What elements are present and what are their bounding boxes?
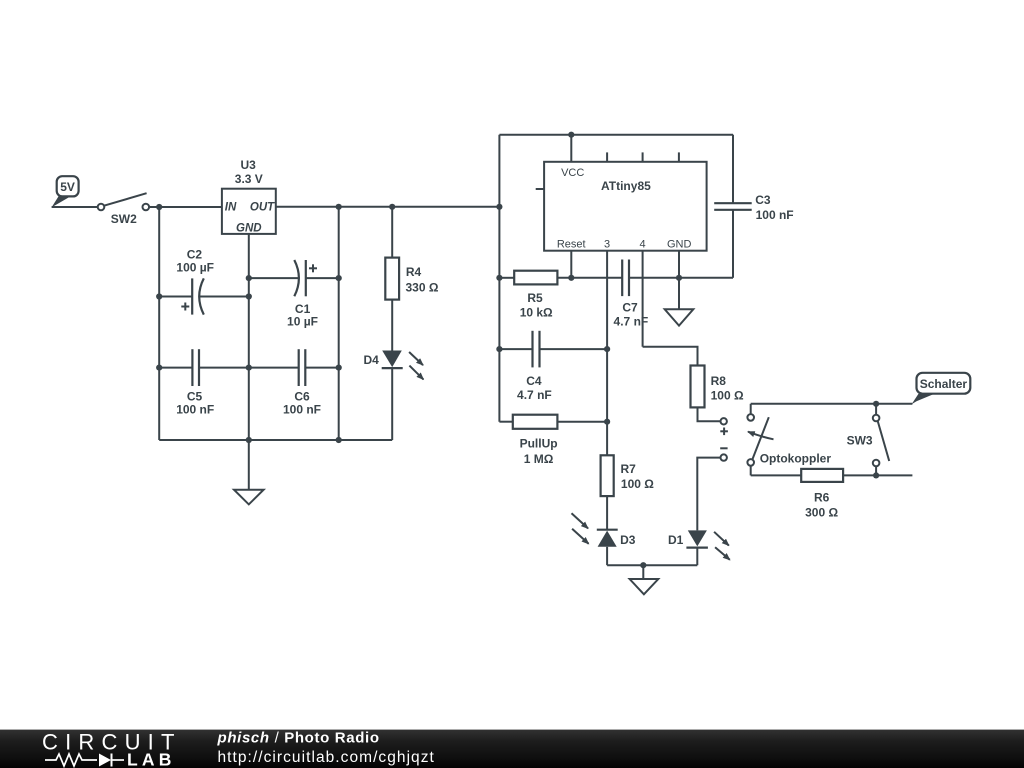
junction left vertical/R5 row xyxy=(496,275,502,281)
junction top wire/SW3 xyxy=(873,401,879,407)
junction rail/R4 xyxy=(389,204,395,210)
junction R5 row/Reset pin xyxy=(568,275,574,281)
svg-text:SW2: SW2 xyxy=(111,212,137,226)
junction GND column/bottom row xyxy=(246,437,252,443)
svg-text:300 Ω: 300 Ω xyxy=(805,505,838,519)
junction GND column/C5 C6 row xyxy=(246,365,252,371)
switch Optokoppler output xyxy=(747,404,831,476)
svg-text:VCC: VCC xyxy=(561,167,584,179)
svg-text:LAB: LAB xyxy=(127,750,176,768)
wire ground stem xyxy=(642,565,644,579)
capacitor C2 xyxy=(159,248,249,315)
wire R5 row left xyxy=(499,277,514,279)
svg-text:4.7 nF: 4.7 nF xyxy=(614,315,649,329)
capacitor C5 xyxy=(159,349,249,416)
ground under LED row xyxy=(630,579,659,594)
capacitor C4 xyxy=(517,331,552,402)
node plus terminal xyxy=(720,418,728,435)
wire minus terminal to D1 xyxy=(697,458,720,531)
svg-text:10 µF: 10 µF xyxy=(287,314,318,328)
wire VCC top rail of MCU loop xyxy=(499,134,733,136)
svg-text:C7: C7 xyxy=(622,301,638,315)
resistor R4 xyxy=(385,258,439,300)
wire 5V to SW2 xyxy=(52,206,98,208)
resistor R7 xyxy=(601,455,655,496)
capacitor C7 xyxy=(614,260,649,329)
wire GND pin down xyxy=(678,251,680,310)
wire left cap column xyxy=(158,207,160,440)
junction left column/C2 row xyxy=(156,293,162,299)
svg-text:3.3 V: 3.3 V xyxy=(235,172,263,186)
switch SW3 xyxy=(847,404,890,476)
capacitor C3 xyxy=(714,193,793,222)
svg-text:GND: GND xyxy=(667,238,692,250)
CircuitLab footer bar xyxy=(0,729,1024,768)
wire U3 GND column xyxy=(248,234,250,490)
svg-text:U3: U3 xyxy=(241,158,257,172)
svg-text:3: 3 xyxy=(604,238,610,250)
svg-text:100 Ω: 100 Ω xyxy=(711,388,744,402)
svg-text:C6: C6 xyxy=(294,390,310,404)
junction GND column/C2 row xyxy=(246,293,252,299)
wire R4 branch top xyxy=(391,207,393,258)
wire R6 to right end xyxy=(843,474,912,476)
switch SW2 xyxy=(98,193,149,226)
svg-text:100 nF: 100 nF xyxy=(176,402,214,416)
svg-text:R4: R4 xyxy=(406,265,422,279)
junction top rail/VCC pin xyxy=(568,132,574,138)
wire C7 to right vertical xyxy=(629,277,733,279)
wire MCU loop right vertical upper xyxy=(732,135,734,204)
junction GND column/C1 row xyxy=(246,275,252,281)
junction PullUp row/pin 3 xyxy=(604,419,610,425)
wire R7 to D3 xyxy=(606,496,608,530)
junction right column/C1 row xyxy=(336,275,342,281)
capacitor C6 xyxy=(249,349,339,416)
svg-text:http://circuitlab.com/cghjqzt: http://circuitlab.com/cghjqzt xyxy=(218,749,435,766)
junction left column/C5 row xyxy=(156,365,162,371)
svg-text:R6: R6 xyxy=(814,491,830,505)
wire C4 to pin 3 xyxy=(540,348,608,350)
ground under MCU GND xyxy=(665,309,694,325)
svg-text:PullUp: PullUp xyxy=(520,437,558,451)
svg-text:phisch / Photo Radio: phisch / Photo Radio xyxy=(217,730,380,747)
wire R4 to D4 xyxy=(391,300,393,351)
node Schalter flag xyxy=(912,373,971,404)
op-amp U1 ATtiny85 MCU xyxy=(536,135,707,251)
svg-text:R7: R7 xyxy=(621,462,637,476)
svg-text:4.7 nF: 4.7 nF xyxy=(517,388,552,402)
wire D3 to bottom xyxy=(606,547,608,565)
wire R5 to C7 xyxy=(557,277,622,279)
junction right column/bottom row xyxy=(336,437,342,443)
wire pin 3 down xyxy=(606,251,608,456)
LED D1 xyxy=(668,530,730,559)
svg-text:C3: C3 xyxy=(755,193,771,207)
wire R8 to plus terminal xyxy=(698,407,721,421)
junction rail/MCU left vertical xyxy=(496,204,502,210)
resistor R5 xyxy=(514,271,557,320)
junction right column/C6 row xyxy=(336,365,342,371)
svg-text:R5: R5 xyxy=(527,291,543,305)
wire D1 to bottom row xyxy=(696,548,698,566)
svg-text:Reset: Reset xyxy=(557,238,586,250)
junction C4 row/pin 3 xyxy=(604,346,610,352)
wire pin 4 down xyxy=(642,251,644,347)
ground under cap network xyxy=(234,490,264,505)
wire bottom row of cap network xyxy=(159,439,392,441)
svg-text:1 MΩ: 1 MΩ xyxy=(524,452,554,466)
svg-text:D1: D1 xyxy=(668,533,684,547)
svg-text:100 nF: 100 nF xyxy=(283,402,321,416)
svg-text:R8: R8 xyxy=(711,374,727,388)
svg-text:Optokoppler: Optokoppler xyxy=(760,452,832,466)
svg-text:C4: C4 xyxy=(526,374,542,388)
svg-text:C2: C2 xyxy=(187,248,203,262)
junction R5 row/GND pin xyxy=(676,275,682,281)
svg-text:IN: IN xyxy=(225,202,237,214)
junction left vertical/C4 row xyxy=(496,346,502,352)
svg-text:GND: GND xyxy=(236,222,262,234)
wire PullUp to pin 3 xyxy=(557,421,607,423)
wire pin 4 to R8 xyxy=(643,347,698,366)
LED D4 xyxy=(363,351,423,380)
wire Reset pin down xyxy=(570,251,572,278)
wire right cap column xyxy=(338,207,340,440)
resistor PullUp xyxy=(513,415,558,466)
capacitor C1 xyxy=(249,260,339,328)
svg-text:5V: 5V xyxy=(60,180,75,194)
svg-text:D3: D3 xyxy=(620,533,636,547)
svg-text:ATtiny85: ATtiny85 xyxy=(601,179,651,193)
svg-text:100 Ω: 100 Ω xyxy=(621,477,654,491)
wire MCU loop right vertical lower xyxy=(732,210,734,278)
svg-text:SW3: SW3 xyxy=(847,434,873,448)
wire bottom LED row xyxy=(607,564,697,566)
wire Optokoppler top to Schalter xyxy=(751,403,913,405)
wire D4 to bottom row xyxy=(391,368,393,440)
svg-text:100 µF: 100 µF xyxy=(176,261,214,275)
svg-text:D4: D4 xyxy=(363,353,379,367)
junction at rail/left cap column xyxy=(156,204,162,210)
node 5V flag xyxy=(52,176,79,207)
wire Optokoppler bottom to R6 xyxy=(751,474,802,476)
resistor R8 xyxy=(691,366,744,408)
wire PullUp row left xyxy=(499,421,512,423)
wire MCU loop left vertical xyxy=(498,135,500,422)
svg-text:4: 4 xyxy=(640,238,646,250)
op-amp U3 voltage regulator xyxy=(222,158,276,235)
wire C4 row left xyxy=(499,348,532,350)
svg-text:330 Ω: 330 Ω xyxy=(406,280,439,294)
junction rail/C6 column xyxy=(336,204,342,210)
junction bottom wire/SW3 xyxy=(873,472,879,478)
svg-text:OUT: OUT xyxy=(250,202,275,214)
svg-text:100 nF: 100 nF xyxy=(756,208,794,222)
node minus terminal xyxy=(720,448,727,461)
svg-text:C5: C5 xyxy=(187,390,203,404)
photodiode D3 xyxy=(572,513,636,547)
wire U3 OUT rail xyxy=(276,206,500,208)
junction LED row/ground xyxy=(640,562,646,568)
svg-text:10 kΩ: 10 kΩ xyxy=(520,305,553,319)
resistor R6 xyxy=(801,469,843,519)
svg-text:Schalter: Schalter xyxy=(920,377,968,391)
wire SW2 to U3 IN xyxy=(149,206,222,208)
